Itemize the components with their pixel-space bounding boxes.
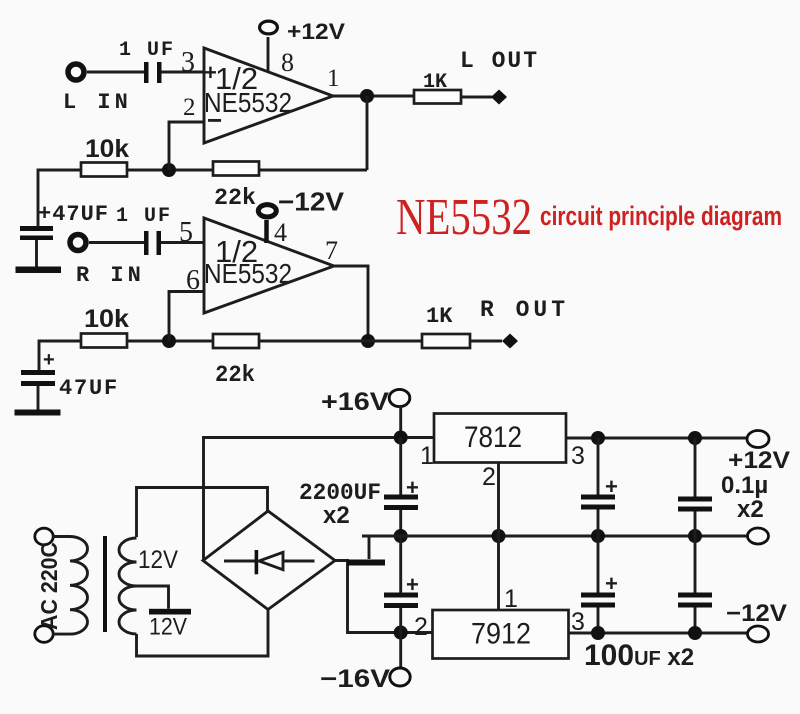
svg-text:L IN: L IN	[63, 90, 132, 115]
node feedback R	[162, 334, 176, 348]
node out cap1	[591, 431, 605, 445]
svg-text:1K: 1K	[426, 304, 453, 329]
svg-text:x2: x2	[323, 502, 350, 529]
svg-text:7912: 7912	[471, 618, 531, 651]
capacitor C1 1UF	[144, 62, 149, 83]
svg-text:1K: 1K	[423, 71, 447, 94]
regulator 7812	[434, 414, 566, 463]
capacitor 100UF top-left wire	[597, 438, 600, 495]
svg-text:2: 2	[183, 94, 196, 121]
wire C1 to pin3	[162, 71, 205, 74]
wire bridge right to -16V rail	[335, 561, 433, 633]
terminal mid	[748, 528, 769, 544]
svg-text:AC 220C: AC 220C	[36, 542, 62, 630]
node +16V	[394, 431, 408, 445]
wire +16V rail	[204, 438, 435, 561]
resistor 1K (L)	[414, 90, 461, 104]
svg-text:12V: 12V	[138, 546, 178, 574]
capacitor 0.1u bottom plates	[678, 593, 712, 598]
diode wire left	[224, 560, 255, 563]
terminal L IN	[68, 64, 84, 80]
wire pin 2	[169, 122, 204, 170]
wire 10k to corner R	[39, 341, 81, 370]
svg-text:+: +	[43, 349, 55, 371]
svg-text:R IN: R IN	[76, 263, 145, 288]
op-amp U1B	[204, 218, 334, 313]
svg-text:3: 3	[571, 442, 585, 470]
pin 2 wire (7812)	[497, 463, 500, 537]
svg-text:7812: 7812	[464, 421, 522, 454]
svg-text:1 UF: 1 UF	[116, 205, 172, 228]
svg-text:circuit principle diagram: circuit principle diagram	[540, 201, 782, 231]
svg-text:1: 1	[327, 65, 340, 92]
svg-text:5: 5	[179, 217, 193, 248]
node -16V	[394, 626, 408, 640]
wire feedback vertical L	[366, 96, 369, 170]
svg-text:2: 2	[482, 463, 496, 491]
svg-text:8: 8	[281, 48, 294, 77]
transformer primary coil	[53, 537, 88, 635]
node out2 cap1	[591, 626, 605, 640]
svg-text:3: 3	[181, 47, 195, 78]
svg-text:7: 7	[325, 236, 338, 265]
svg-text:+: +	[406, 572, 419, 597]
vertical bus top	[399, 438, 402, 496]
wire 1K to R OUT	[470, 340, 502, 343]
op-amp U1A	[204, 48, 333, 143]
wire 100UF bottom bottom	[597, 608, 600, 633]
wire node R to 1K	[368, 340, 422, 343]
wire 1K to L OUT	[461, 96, 492, 99]
ground stub	[368, 536, 371, 559]
svg-text:+16V: +16V	[321, 388, 389, 416]
wire C3 to pin5	[161, 241, 204, 244]
resistor 10k (L)	[81, 163, 127, 177]
capacitor C2 47UF	[20, 226, 53, 231]
node mid 7812 pin2	[492, 529, 506, 543]
ground bar (mid)	[347, 560, 385, 566]
wire 0.1u bottom bottom	[694, 608, 697, 634]
svg-text:+12V: +12V	[728, 447, 790, 474]
resistor 22k (R)	[213, 334, 259, 348]
terminal R IN	[70, 235, 86, 251]
wire bridge bottom	[137, 610, 269, 657]
node feedback L	[162, 163, 176, 177]
transformer core	[103, 536, 107, 632]
ground R	[15, 410, 61, 416]
wire R IN to C3	[89, 241, 144, 244]
center tap wire	[137, 586, 169, 609]
wire bus mid1	[399, 510, 402, 536]
svg-text:22k: 22k	[215, 362, 255, 388]
terminal L OUT	[491, 90, 507, 105]
capacitor 2200UF bottom	[384, 593, 418, 598]
bridge rectifier	[203, 511, 335, 610]
svg-text:−12V: −12V	[726, 600, 787, 627]
terminal -12V out	[748, 626, 769, 642]
resistor 22k (L)	[213, 162, 259, 176]
terminal -12V	[258, 205, 276, 217]
node bus mid	[394, 529, 408, 543]
ground L	[16, 267, 62, 274]
svg-text:NE5532: NE5532	[204, 258, 292, 289]
pin 1 wire (7912)	[497, 536, 500, 610]
wire 10k to corner	[38, 170, 81, 226]
wire bus mid2	[399, 536, 402, 593]
transformer primary terminal bottom	[35, 626, 53, 643]
svg-text:1: 1	[420, 442, 434, 470]
wire pin 6	[169, 292, 203, 342]
transformer secondary coil	[119, 538, 137, 634]
diode triangle	[259, 552, 283, 569]
wire output op2	[334, 266, 368, 341]
node mid cap1	[591, 529, 605, 543]
svg-text:+47UF: +47UF	[38, 202, 109, 227]
capacitor C3 1UF	[144, 231, 149, 255]
svg-text:L OUT: L OUT	[460, 48, 539, 74]
resistor 1K (R)	[422, 334, 470, 348]
svg-text:12V: 12V	[149, 614, 187, 641]
svg-text:NE5532: NE5532	[396, 189, 532, 246]
node out2 cap2	[688, 626, 702, 640]
terminal -16V	[390, 668, 410, 686]
pin 4 stem	[264, 220, 269, 243]
wire +16V terminal	[399, 406, 402, 438]
wire secondary top to bridge	[137, 488, 268, 538]
node mid cap2	[688, 529, 702, 543]
svg-text:R OUT: R OUT	[480, 297, 569, 323]
svg-text:1: 1	[504, 585, 518, 613]
svg-text:22k: 22k	[214, 185, 256, 211]
svg-text:x2: x2	[737, 496, 764, 523]
capacitor 100UF bottom plates	[581, 593, 615, 598]
wire C4 to ground	[37, 386, 40, 410]
svg-text:+: +	[605, 474, 618, 499]
capacitor 0.1u bottom wire	[694, 536, 697, 593]
svg-text:1 UF: 1 UF	[119, 39, 175, 62]
wire 22k to node R	[127, 340, 213, 343]
capacitor 100UF top plates	[581, 495, 615, 500]
terminal +12V	[260, 21, 278, 34]
transformer primary terminal top	[35, 528, 53, 545]
diode cathode bar	[255, 550, 259, 574]
terminal +16V	[389, 389, 410, 406]
svg-text:−16V: −16V	[320, 665, 390, 693]
svg-text:−12V: −12V	[278, 187, 345, 217]
svg-text:+12V: +12V	[287, 19, 345, 44]
wire L IN to C1	[87, 71, 144, 74]
svg-text:0.1µ: 0.1µ	[721, 472, 768, 499]
terminal +12V out	[747, 431, 769, 448]
node output L	[360, 89, 374, 103]
capacitor C4 47UF	[21, 370, 55, 375]
svg-text:4: 4	[274, 218, 287, 247]
wire feedback rail R	[260, 340, 368, 343]
terminal R OUT	[502, 334, 518, 349]
wire C2 to ground	[35, 240, 38, 267]
svg-text:2: 2	[414, 613, 428, 641]
svg-text:+: +	[605, 571, 618, 596]
mid rail	[362, 535, 747, 538]
regulator 7912	[433, 610, 569, 659]
wire feedback rail L	[259, 169, 367, 172]
center tap ground bar	[149, 609, 191, 615]
svg-text:47UF: 47UF	[59, 376, 119, 401]
wire bus bottom	[399, 608, 402, 669]
diode wire right	[283, 560, 315, 563]
wire 0.1u top bottom	[694, 512, 697, 537]
wire pin 8	[267, 37, 270, 72]
node out cap2	[688, 431, 702, 445]
svg-text:10k: 10k	[85, 135, 129, 163]
wire 7812 out	[566, 437, 747, 440]
svg-text:6: 6	[186, 265, 200, 296]
capacitor 100UF bottom wire	[597, 536, 600, 593]
svg-text:NE5532: NE5532	[204, 87, 292, 118]
node output R	[361, 334, 375, 348]
capacitor 0.1u top wire	[694, 438, 697, 497]
svg-text:+: +	[406, 475, 419, 500]
capacitor 0.1u top plates	[678, 497, 712, 502]
wire 7912 out	[569, 632, 747, 635]
wire output op1	[333, 95, 414, 98]
svg-text:10k: 10k	[84, 305, 129, 333]
resistor 10k (R)	[81, 334, 127, 348]
wire 22k to node	[127, 169, 213, 172]
wire 100UF top bottom	[597, 510, 600, 537]
capacitor 2200UF top	[384, 495, 418, 500]
